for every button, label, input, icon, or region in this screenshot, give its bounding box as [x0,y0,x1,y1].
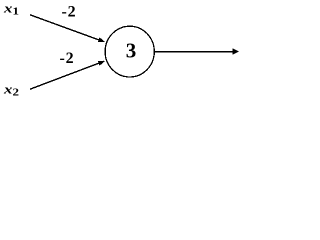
svg-text:-2: -2 [62,4,77,21]
svg-text:x1: x1 [3,2,19,17]
svg-text:3: 3 [126,38,137,62]
svg-text:-2: -2 [60,50,75,67]
svg-text:x2: x2 [3,83,19,98]
